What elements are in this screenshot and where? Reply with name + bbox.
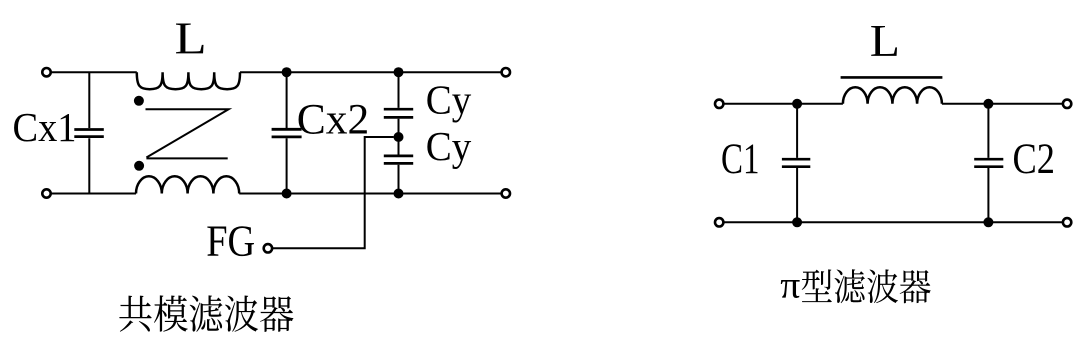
terminal right top of left circuit xyxy=(502,68,510,76)
junction dot Cy top xyxy=(394,67,404,77)
terminal right circuit right top xyxy=(1063,100,1071,108)
terminal left bottom xyxy=(42,189,50,197)
junction dot Cx2 top xyxy=(282,67,292,77)
terminal right circuit right bottom xyxy=(1063,218,1071,226)
phase dot bottom xyxy=(134,161,144,171)
terminal FG xyxy=(264,244,272,252)
wire top rail right circuit xyxy=(723,103,1063,105)
capacitor Cx1 xyxy=(74,72,104,193)
svg-text:L: L xyxy=(175,13,207,64)
capacitor C2 xyxy=(974,104,1003,223)
inductor L top winding of common-mode choke xyxy=(137,72,240,89)
wire bottom rail left circuit xyxy=(51,193,502,195)
caption char 滤 xyxy=(834,269,865,303)
svg-text:L: L xyxy=(870,17,900,66)
svg-text:C2: C2 xyxy=(1013,136,1056,183)
inductor L of pi filter xyxy=(843,87,942,104)
label L xyxy=(175,13,207,64)
junction dot C1 top xyxy=(792,99,802,109)
caption char 波 xyxy=(225,296,258,332)
svg-text:π: π xyxy=(780,265,800,307)
capacitor Cy upper xyxy=(384,72,413,137)
svg-text:Cx1: Cx1 xyxy=(13,104,77,150)
junction dot C2 bottom xyxy=(983,217,993,227)
caption char 波 xyxy=(867,269,898,303)
capacitor Cx2 xyxy=(272,72,302,193)
svg-text:Cx2: Cx2 xyxy=(297,97,370,144)
wire top rail left circuit xyxy=(51,71,502,73)
svg-text:FG: FG xyxy=(206,217,255,266)
caption char 型 xyxy=(802,269,832,302)
svg-text:C1: C1 xyxy=(721,136,760,183)
phase dot top xyxy=(134,96,144,106)
terminal right bottom of left circuit xyxy=(502,189,510,197)
capacitor Cy lower xyxy=(384,137,413,194)
junction dot Cy bottom xyxy=(394,189,404,199)
terminal right circuit left top xyxy=(715,100,723,108)
wire bottom rail right circuit xyxy=(723,221,1063,223)
junction dot Cx2 bottom xyxy=(282,189,292,199)
terminal right circuit left bottom xyxy=(715,218,723,226)
capacitor C1 xyxy=(782,104,810,223)
junction dot Cy midpoint xyxy=(394,132,404,142)
svg-text:Cy: Cy xyxy=(426,123,472,169)
inductor bottom winding of common-mode choke xyxy=(136,176,239,193)
caption char 共 xyxy=(119,296,151,332)
core symbol Z xyxy=(146,109,229,158)
core bar of inductor xyxy=(841,76,943,79)
terminal left top xyxy=(42,68,50,76)
wire FG to Cy midpoint xyxy=(273,137,394,248)
junction dot C2 top xyxy=(983,99,993,109)
label L right xyxy=(870,17,900,66)
svg-text:Cy: Cy xyxy=(426,76,472,122)
caption char 滤 xyxy=(190,295,223,331)
caption char 器 xyxy=(260,296,293,332)
caption char 器 xyxy=(900,270,931,303)
junction dot C1 bottom xyxy=(792,217,802,227)
caption char 模 xyxy=(154,295,188,331)
